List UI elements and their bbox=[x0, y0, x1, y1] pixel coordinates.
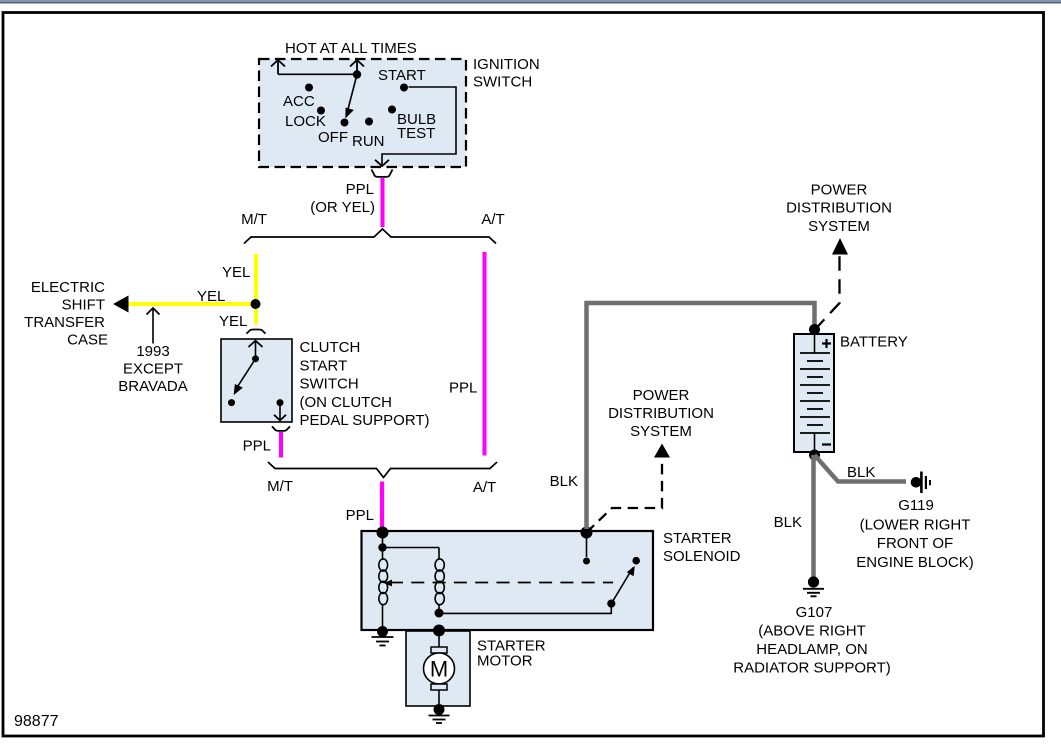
svg-text:IGNITION: IGNITION bbox=[473, 56, 540, 73]
node BLK input bbox=[581, 527, 593, 539]
contact dot upper bbox=[252, 355, 259, 362]
svg-text:START: START bbox=[378, 67, 426, 84]
brace top bbox=[244, 229, 496, 244]
contact LOCK bbox=[317, 107, 325, 115]
wire BLK to G119 bbox=[815, 455, 907, 482]
svg-text:POWER: POWER bbox=[633, 387, 690, 404]
svg-text:98877: 98877 bbox=[14, 713, 59, 730]
svg-text:ELECTRIC: ELECTRIC bbox=[31, 279, 105, 296]
svg-text:POWER: POWER bbox=[811, 182, 868, 199]
ground (solenoid) bbox=[377, 626, 388, 637]
solenoid plunger dashed link bbox=[390, 582, 613, 584]
svg-text:M/T: M/T bbox=[267, 478, 293, 495]
svg-text:PEDAL SUPPORT): PEDAL SUPPORT) bbox=[300, 412, 430, 429]
svg-text:M/T: M/T bbox=[241, 211, 267, 228]
svg-text:ENGINE BLOCK): ENGINE BLOCK) bbox=[856, 554, 974, 571]
svg-text:YEL: YEL bbox=[197, 288, 225, 305]
svg-text:CLUTCH: CLUTCH bbox=[300, 339, 361, 356]
contact RUN bbox=[365, 118, 373, 126]
svg-text:YEL: YEL bbox=[222, 264, 250, 281]
svg-text:A/T: A/T bbox=[473, 479, 496, 496]
svg-text:SYSTEM: SYSTEM bbox=[630, 423, 692, 440]
svg-text:PPL: PPL bbox=[243, 438, 271, 455]
svg-text:YEL: YEL bbox=[219, 313, 247, 330]
clutch start switch box bbox=[221, 339, 292, 422]
ground (motor) bbox=[434, 704, 445, 715]
starter solenoid box bbox=[362, 531, 654, 630]
coil left (pull-in winding) bbox=[382, 548, 384, 560]
contact BULB TEST bbox=[388, 106, 396, 114]
svg-text:OFF: OFF bbox=[318, 129, 348, 146]
node battery positive bbox=[809, 324, 820, 335]
contact START bbox=[400, 84, 408, 92]
wire from START down to output bbox=[382, 87, 456, 165]
wire to coils bbox=[382, 533, 384, 549]
node coil junction bbox=[435, 609, 444, 618]
battery polarity bbox=[822, 342, 831, 344]
svg-text:G107: G107 bbox=[796, 604, 833, 621]
ground G119 bbox=[911, 477, 922, 488]
wire YEL horizontal bbox=[126, 302, 257, 306]
svg-text:M: M bbox=[430, 657, 448, 682]
wire BLK to G107 bbox=[811, 455, 816, 578]
svg-text:(ABOVE RIGHT: (ABOVE RIGHT bbox=[758, 623, 866, 640]
svg-text:TEST: TEST bbox=[397, 125, 435, 142]
connector under ignition box bbox=[372, 170, 393, 177]
wire to ground bbox=[438, 690, 440, 709]
arrow up above pivot bbox=[356, 60, 358, 74]
wire PPL A/T vertical bbox=[483, 252, 487, 456]
svg-text:A/T: A/T bbox=[481, 211, 504, 228]
svg-text:G119: G119 bbox=[898, 497, 934, 514]
svg-text:SWITCH: SWITCH bbox=[300, 376, 359, 393]
svg-text:DISTRIBUTION: DISTRIBUTION bbox=[786, 200, 892, 217]
wire to brush bbox=[438, 631, 440, 647]
svg-text:STARTER: STARTER bbox=[663, 530, 732, 547]
brace bottom bbox=[268, 462, 497, 478]
svg-text:DISTRIBUTION: DISTRIBUTION bbox=[608, 405, 714, 422]
svg-text:BRAVADA: BRAVADA bbox=[118, 378, 187, 395]
svg-text:LOCK: LOCK bbox=[285, 113, 326, 130]
svg-text:(ON CLUTCH: (ON CLUTCH bbox=[300, 394, 393, 411]
connector above clutch switch bbox=[247, 330, 266, 334]
coil right (hold-in winding) bbox=[438, 548, 440, 560]
svg-text:SYSTEM: SYSTEM bbox=[808, 218, 870, 235]
svg-text:START: START bbox=[300, 357, 348, 374]
solenoid fixed contact bbox=[632, 557, 640, 565]
contact dot lower-left bbox=[228, 399, 235, 406]
svg-text:FRONT OF: FRONT OF bbox=[877, 535, 953, 552]
arrowhead to transfer case bbox=[113, 296, 129, 313]
svg-text:HOT AT ALL TIMES: HOT AT ALL TIMES bbox=[285, 40, 417, 57]
svg-text:BLK: BLK bbox=[550, 473, 578, 490]
starter motor box bbox=[406, 631, 470, 706]
brush top bbox=[431, 647, 447, 653]
switch arm diagonal bbox=[236, 359, 256, 389]
svg-text:SOLENOID: SOLENOID bbox=[663, 548, 741, 565]
motor M bbox=[424, 653, 455, 684]
rotor arm to OFF bbox=[347, 75, 357, 114]
wire PPL from ignition bbox=[381, 178, 385, 227]
ground G107 bbox=[808, 576, 819, 587]
wire PPL below clutch switch bbox=[279, 432, 283, 458]
svg-text:EXCEPT: EXCEPT bbox=[123, 361, 183, 378]
wire PPL to solenoid bbox=[380, 482, 384, 530]
ignition switch box bbox=[259, 59, 466, 167]
exit arrow down bbox=[279, 403, 281, 421]
svg-text:1993: 1993 bbox=[136, 343, 169, 360]
svg-text:TRANSFER: TRANSFER bbox=[24, 314, 105, 331]
node battery negative bbox=[809, 450, 820, 461]
battery cells bbox=[814, 334, 816, 353]
svg-text:BLK: BLK bbox=[847, 464, 875, 481]
svg-text:PPL: PPL bbox=[346, 181, 374, 198]
wire BLK battery feed bbox=[587, 303, 815, 529]
note arrow 1993 bbox=[152, 308, 154, 344]
connector below clutch switch bbox=[272, 426, 290, 431]
svg-text:SWITCH: SWITCH bbox=[473, 74, 532, 91]
top window strip bbox=[0, 0, 1061, 2]
svg-text:PPL: PPL bbox=[346, 507, 374, 524]
junction node bbox=[251, 299, 261, 309]
svg-text:SHIFT: SHIFT bbox=[62, 297, 105, 314]
svg-text:MOTOR: MOTOR bbox=[477, 653, 533, 670]
svg-text:CASE: CASE bbox=[67, 332, 108, 349]
svg-text:RADIATOR SUPPORT): RADIATOR SUPPORT) bbox=[733, 660, 891, 677]
contact dot lower-right bbox=[277, 399, 284, 406]
svg-text:HEADLAMP, ON: HEADLAMP, ON bbox=[756, 641, 867, 658]
svg-text:RUN: RUN bbox=[352, 133, 385, 150]
dashed arrow bbox=[815, 255, 840, 330]
solenoid contact arm bbox=[607, 600, 615, 608]
wire horizontal to pivot bbox=[278, 73, 357, 75]
wire to switch pivot bbox=[439, 604, 611, 614]
wire YEL vertical bbox=[254, 254, 258, 325]
brush bottom bbox=[431, 684, 447, 690]
svg-text:(LOWER RIGHT: (LOWER RIGHT bbox=[860, 517, 971, 534]
svg-text:(OR YEL): (OR YEL) bbox=[310, 199, 375, 216]
battery box bbox=[794, 334, 834, 452]
svg-text:BLK: BLK bbox=[774, 514, 802, 531]
pivot contact dot bbox=[353, 70, 361, 78]
switch arm arrow up bbox=[255, 341, 257, 359]
svg-text:ACC: ACC bbox=[283, 93, 315, 110]
svg-text:PPL: PPL bbox=[449, 380, 477, 397]
svg-text:BATTERY: BATTERY bbox=[840, 334, 908, 351]
contact ACC bbox=[305, 84, 313, 92]
wire feed arrow up (left, inside box) bbox=[277, 60, 279, 74]
contact OFF bbox=[341, 119, 349, 127]
node motor input bbox=[433, 625, 445, 637]
dashed arrow bbox=[587, 457, 663, 533]
node PPL input bbox=[377, 527, 389, 539]
